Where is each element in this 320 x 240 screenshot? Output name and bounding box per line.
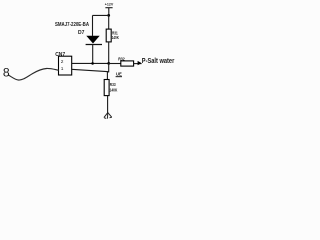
wire down to diode D7 cathode [92,15,94,36]
node A junction dot [107,14,110,17]
svg-text:8: 8 [3,66,10,80]
node C junction dot (R31/R32/R33) [107,62,110,65]
connector CN7 body [59,56,72,75]
wire CN7 pin 1 joining vertical chain [71,69,108,71]
power rail bar symbol [105,7,112,9]
svg-text:2: 2 [61,59,64,65]
svg-text:1: 1 [61,66,64,72]
node B junction dot (diode) [91,62,94,65]
svg-text:140K: 140K [112,35,120,40]
wire node C to R32 [109,63,121,65]
wire R31 bottom to node B [108,42,110,64]
wire R33 bottom to ground [107,96,109,113]
diode D7 triangle (anode, pointing down) [86,36,99,44]
diode D7 cathode bar [86,44,102,46]
wire CN7 pin 2 to node B [71,62,108,64]
svg-text:UE: UE [116,72,122,77]
resistor R31 wire from node A [108,15,110,29]
svg-text:140K: 140K [110,88,118,93]
arrowhead at P-Salt water net [138,61,142,65]
wire node A left to diode branch [93,14,109,16]
svg-text:+12V: +12V [105,3,114,7]
underline of UE label [116,76,122,78]
squiggle wire from node 8 to CN7 [9,68,59,80]
svg-text:SMAJ7-220E-BA: SMAJ7-220E-BA [55,22,89,28]
wire node C down to R33 [107,63,108,79]
resistor R33 body [104,80,109,96]
resistor R32 body [121,61,134,66]
svg-text:D7: D7 [78,30,85,36]
wire R32 to net label [134,63,142,65]
wire from power bar down to node A [108,8,110,16]
resistor R31 body [106,29,111,42]
ground symbol [104,113,112,119]
svg-text:R33: R33 [110,82,116,87]
wire diode cathode down to node B [92,45,94,64]
svg-text:P-Salt water: P-Salt water [142,58,175,65]
